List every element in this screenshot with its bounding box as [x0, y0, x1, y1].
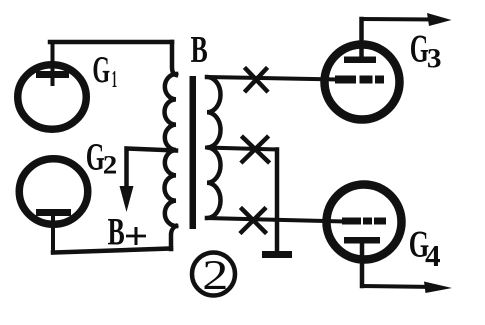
wire center tap down to ground	[275, 150, 280, 253]
cathode bar of G2	[36, 209, 71, 216]
circled figure number 2	[192, 253, 235, 296]
cathode bar of G4	[344, 237, 380, 244]
wire primary top lead	[172, 42, 176, 75]
tube G3	[325, 45, 400, 120]
wire bottom horizontal	[53, 249, 171, 253]
ground bar	[262, 251, 292, 258]
tube G4	[327, 185, 402, 260]
wire G3 anode lead	[359, 19, 364, 57]
label B+ B	[108, 219, 124, 244]
label G4 G	[410, 232, 428, 257]
label B	[191, 37, 207, 62]
grid dashes of G3	[335, 76, 384, 84]
label G3 G	[411, 35, 428, 62]
wire primary bottom lead	[171, 226, 176, 249]
label B+ plus	[126, 227, 146, 245]
wire primary center tap to B+	[127, 149, 177, 189]
wire secondary middle tap	[207, 148, 277, 150]
wire G3 output with arrow	[362, 17, 434, 22]
label G3 sub3	[428, 49, 440, 67]
label G1 G	[94, 57, 110, 82]
wire secondary bottom tap to G4 grid	[207, 218, 343, 222]
label G2 sub2	[104, 156, 116, 174]
crossing X2	[243, 138, 269, 162]
tube G2	[19, 159, 88, 225]
arrowhead G3 output	[427, 13, 452, 26]
transformer core	[190, 76, 197, 229]
anode bar of G3	[344, 57, 376, 64]
label 2 in circle	[205, 261, 226, 289]
transformer secondary winding	[207, 77, 221, 218]
grid dashes of G4	[342, 218, 386, 225]
label G4 sub4	[425, 246, 440, 266]
arrowhead G4 output	[424, 282, 452, 294]
wire G1 anode lead	[51, 42, 55, 84]
crossing X1	[246, 69, 267, 91]
wire secondary top tap to G3 grid	[207, 77, 336, 80]
wire G2 cathode lead	[51, 212, 55, 253]
transformer primary winding	[165, 74, 177, 226]
arrowhead B+	[120, 186, 134, 212]
crossing X3	[242, 209, 266, 232]
tube G1	[18, 65, 87, 130]
label G2 G	[87, 144, 104, 170]
wire G4 output with arrow	[362, 286, 435, 287]
label G1 sub1	[113, 71, 117, 87]
anode bar of G1	[36, 71, 69, 78]
wire G4 cathode lead	[360, 243, 365, 286]
wire top horizontal	[50, 40, 172, 45]
